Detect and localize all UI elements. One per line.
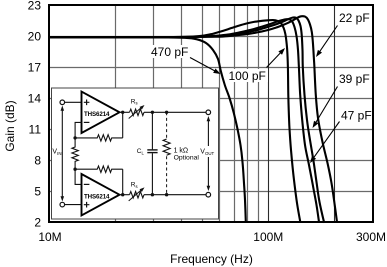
wire dashed top lead of R1 (166, 112, 168, 139)
svg-text:10M: 10M (38, 230, 61, 244)
node E (top 1k tap) (165, 111, 168, 114)
svg-text:Optional: Optional (174, 154, 200, 161)
VOUT indicator arrow (bottom) (207, 157, 211, 191)
node B (U1b feedback junction) (73, 168, 76, 171)
label VIN (52, 149, 61, 157)
node G (bottom CL tap) (151, 193, 154, 196)
node H (bottom 1k tap) (165, 193, 168, 196)
annotation 47 pF (310, 109, 372, 164)
svg-text:11: 11 (29, 123, 42, 137)
gridlines (50, 6, 372, 221)
label Rs2 (131, 182, 138, 189)
x axis tick labels (38, 230, 386, 244)
capacitor CL (147, 112, 157, 194)
svg-text:39 pF: 39 pF (339, 72, 370, 86)
curve 100 pF (49, 20, 300, 222)
wire U1b output (120, 194, 130, 196)
resistor RF2 (bottom feedback) (75, 166, 123, 172)
svg-text:Frequency (Hz): Frequency (Hz) (170, 252, 253, 266)
annotation 470 pF (149, 45, 221, 74)
svg-text:100M: 100M (253, 230, 283, 244)
resistor RF1 (top feedback) (75, 135, 123, 141)
inset schematic panel (52, 88, 219, 219)
resistor RG (gain set, between nodes A and B) (72, 138, 78, 169)
node F (U1b output) (121, 193, 124, 196)
plot frame (49, 5, 373, 222)
resistor Rs1 (top series, variable) (129, 105, 145, 119)
annotation 100 pF (227, 48, 285, 83)
VIN source indicator arrow (61, 106, 65, 202)
svg-text:THS6214: THS6214 (84, 193, 110, 200)
curve 39 pF (49, 17, 324, 222)
wire U1a inverting input to feedback node (75, 122, 81, 137)
svg-text:20: 20 (28, 30, 42, 44)
svg-text:470 pF: 470 pF (151, 45, 188, 59)
svg-text:100 pF: 100 pF (229, 69, 266, 83)
curve 470 pF (49, 37, 246, 222)
svg-text:8: 8 (34, 154, 41, 168)
label R1 Optional (174, 154, 200, 161)
VOUT indicator arrow (top) (207, 116, 211, 146)
y axis tick labels (28, 0, 42, 230)
curve 22 pF (49, 16, 337, 222)
label VOUT (200, 149, 214, 157)
svg-text:47 pF: 47 pF (341, 109, 372, 123)
wire bottom output rail (144, 194, 206, 196)
label R1 value 1 kOhm (174, 148, 189, 155)
wire J2 to U1b + input (65, 204, 82, 206)
node A (U1a feedback junction) (73, 136, 76, 139)
svg-text:5: 5 (34, 185, 41, 199)
svg-text:23: 23 (28, 0, 42, 13)
label Rs1 (131, 98, 138, 105)
annotation 39 pF (313, 72, 372, 128)
wire J1 to U1a + input (65, 101, 82, 103)
svg-text:300M: 300M (356, 230, 386, 244)
resistor Rs2 (bottom series, variable) (129, 187, 145, 201)
svg-text:22 pF: 22 pF (339, 11, 370, 25)
wire RF2 to U1b output node (122, 169, 124, 195)
svg-text:14: 14 (28, 92, 42, 106)
op-amp U1a THS6214 (top) (82, 92, 120, 133)
output terminal J3 (top) (206, 110, 211, 115)
label CL (137, 148, 145, 155)
svg-text:Gain (dB): Gain (dB) (3, 100, 17, 151)
svg-text:THS6214: THS6214 (84, 111, 110, 118)
wire top output rail (144, 111, 206, 113)
wire dashed bottom lead of R1 (166, 156, 168, 194)
output terminal J4 (bottom) (206, 192, 211, 197)
op-amp U1b THS6214 (bottom) (82, 174, 120, 215)
node D (top CL tap) (151, 111, 154, 114)
node C (U1a output) (121, 111, 124, 114)
svg-text:2: 2 (34, 216, 41, 230)
curve 47 pF (49, 19, 319, 222)
input terminal J1 (top) (60, 100, 65, 105)
input terminal J2 (bottom) (60, 202, 65, 207)
wire U1a output (120, 111, 130, 113)
wire RF1 to U1a output node (122, 112, 124, 138)
resistor R1 1 kOhm optional (163, 139, 170, 155)
wire U1b inverting input to node B (75, 169, 81, 184)
svg-text:17: 17 (28, 61, 42, 75)
annotation 22 pF (316, 11, 371, 57)
